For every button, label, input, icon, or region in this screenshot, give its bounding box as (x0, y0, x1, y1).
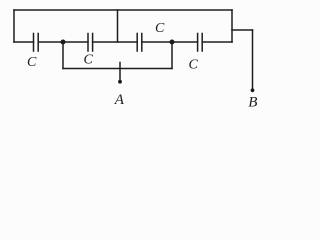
svg-text:A: A (114, 92, 125, 107)
wire: right vertical (231, 10, 233, 42)
wire: mid bus segment 3 (93, 41, 138, 43)
node B terminal dot (251, 88, 255, 92)
wire: left vertical (13, 10, 15, 42)
node junction dot left (61, 40, 66, 45)
wire: terminal A stem (119, 63, 121, 81)
svg-text:B: B (248, 94, 257, 107)
wire: lower box left vertical (62, 42, 64, 69)
capacitor C4 plates (198, 34, 203, 52)
wire: lower box right vertical (171, 42, 173, 69)
wire: top bus (14, 9, 232, 11)
svg-text:C: C (27, 55, 37, 70)
capacitor C2 plates (88, 34, 93, 52)
svg-text:C: C (155, 21, 165, 36)
wire: mid bus segment 1 (14, 41, 34, 43)
wire: mid bus segment 5 (202, 41, 232, 43)
svg-text:C: C (84, 52, 94, 67)
capacitor C3 plates (137, 34, 142, 52)
wire: middle vertical (117, 10, 119, 42)
node A terminal dot (118, 80, 122, 84)
wire: mid bus segment 4 (142, 41, 198, 43)
wire: mid bus segment 2 (38, 41, 88, 43)
node junction dot right (170, 40, 175, 45)
wire: lower box bottom (63, 68, 172, 70)
capacitor C1 plates (34, 34, 39, 52)
svg-text:C: C (189, 58, 199, 73)
wire: branch to B horizontal (232, 29, 253, 31)
wire: terminal B vertical (252, 30, 254, 88)
